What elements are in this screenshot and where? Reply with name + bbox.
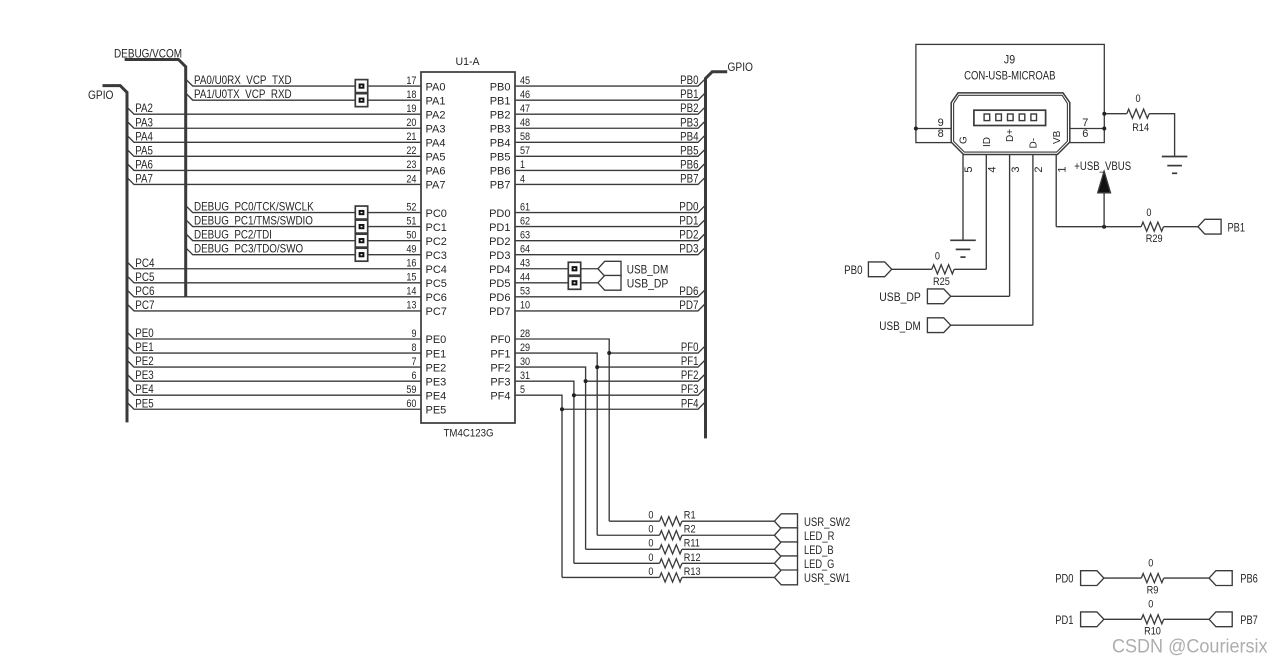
wire+pin PA7 (pin 24) <box>127 177 421 184</box>
svg-text:CSDN @Couriersix: CSDN @Couriersix <box>1112 637 1268 658</box>
svg-text:PC6: PC6 <box>135 284 154 298</box>
resistor R13 (0 ohm) <box>660 573 682 582</box>
svg-text:30: 30 <box>520 356 530 368</box>
wire+pin PF3 (pin 31) with drop <box>515 381 574 563</box>
wire+pin PD6 (pin 53) <box>515 289 706 297</box>
wire+pin PA0 (pin 17) <box>186 79 421 86</box>
wire R2 to port <box>682 534 775 536</box>
svg-text:0: 0 <box>648 510 653 522</box>
J9 pin 4 wire <box>985 155 987 270</box>
svg-text:DEBUG_PC3/TDO/SWO: DEBUG_PC3/TDO/SWO <box>194 242 303 256</box>
svg-text:PE1: PE1 <box>135 340 154 354</box>
wire R11 to port <box>682 548 775 550</box>
power +USB_VBUS arrow <box>1103 193 1105 227</box>
wire+pin PF1 (pin 29) with drop <box>515 353 597 535</box>
svg-text:PA4: PA4 <box>426 138 446 150</box>
svg-text:PB4: PB4 <box>680 129 699 143</box>
svg-text:61: 61 <box>520 201 530 213</box>
svg-text:R25: R25 <box>933 276 950 288</box>
svg-text:57: 57 <box>520 145 530 157</box>
svg-text:D-: D- <box>1029 138 1040 149</box>
svg-text:PA4: PA4 <box>135 129 153 143</box>
svg-text:PD5: PD5 <box>489 278 510 290</box>
J9 tongue contacts <box>984 114 990 121</box>
svg-text:50: 50 <box>406 229 416 241</box>
svg-text:PB1: PB1 <box>490 95 511 107</box>
wire R13 to port <box>682 576 775 578</box>
resistor R29 (0 ohm) <box>1141 222 1163 231</box>
svg-text:PF3: PF3 <box>490 376 510 388</box>
svg-text:PE3: PE3 <box>135 368 154 382</box>
wire R25 to J9 pin4 <box>954 268 986 270</box>
wire+pin PD2 (pin 63) <box>515 233 706 241</box>
svg-text:PE3: PE3 <box>426 376 447 388</box>
svg-text:44: 44 <box>520 272 530 284</box>
wire+pin PF0 (pin 28) with drop <box>515 339 609 521</box>
wire+pin PF2 (pin 30) with drop <box>515 367 586 549</box>
wire+pin PC7 (pin 13) <box>127 304 421 311</box>
svg-text:DEBUG_PC0/TCK/SWCLK: DEBUG_PC0/TCK/SWCLK <box>194 200 314 214</box>
svg-text:PB3: PB3 <box>680 115 699 129</box>
svg-text:PE2: PE2 <box>135 354 154 368</box>
J9 pin 2 wire <box>1032 155 1034 326</box>
svg-text:23: 23 <box>406 159 416 171</box>
svg-text:R1: R1 <box>684 510 696 522</box>
svg-text:60: 60 <box>406 398 416 410</box>
svg-text:PF1: PF1 <box>490 348 510 360</box>
svg-text:PA5: PA5 <box>135 143 153 157</box>
svg-text:22: 22 <box>406 145 416 157</box>
wire+pin PB7 (pin 4) <box>515 177 706 185</box>
svg-text:PF2: PF2 <box>490 362 510 374</box>
wire+pin PA5 (pin 22) <box>127 149 421 156</box>
svg-text:PB0: PB0 <box>844 263 863 277</box>
svg-text:62: 62 <box>520 215 530 227</box>
svg-text:D+: D+ <box>1005 129 1016 142</box>
svg-text:PD2: PD2 <box>679 228 698 242</box>
wire+pin PC3 (pin 49) <box>186 248 421 255</box>
wire PF3 to resistor R12 <box>574 562 660 564</box>
svg-text:PD0: PD0 <box>489 208 510 220</box>
wire+pin PE5 (pin 60) <box>127 402 421 409</box>
svg-text:PE2: PE2 <box>426 362 447 374</box>
wire PD1 to R10 <box>1104 618 1142 620</box>
svg-text:G: G <box>959 136 970 144</box>
J9 pin 7 <box>1070 128 1105 130</box>
wire+pin PB3 (pin 48) <box>515 121 706 129</box>
resistor R10 (0 ohm) <box>1141 615 1163 624</box>
ground (J9 pin 5) <box>962 239 964 241</box>
J9 pin 9 <box>916 128 951 130</box>
svg-text:59: 59 <box>406 384 416 396</box>
resistor R1 (0 ohm) <box>660 517 682 526</box>
svg-text:PF2: PF2 <box>681 368 699 382</box>
svg-text:R11: R11 <box>684 538 700 550</box>
svg-text:43: 43 <box>520 258 530 270</box>
svg-text:CON-USB-MICROAB: CON-USB-MICROAB <box>964 69 1055 83</box>
wire+pin PD5 (pin 44) to port USB_DP <box>515 282 568 284</box>
svg-text:R29: R29 <box>1146 233 1163 245</box>
svg-text:PA6: PA6 <box>426 166 446 178</box>
svg-text:PD7: PD7 <box>679 298 698 312</box>
wire PF2 to resistor R11 <box>586 548 660 550</box>
svg-text:PA3: PA3 <box>135 115 153 129</box>
svg-text:0: 0 <box>648 552 653 564</box>
svg-text:USB_DP: USB_DP <box>627 276 669 290</box>
port PB6 <box>1209 571 1232 586</box>
svg-text:53: 53 <box>520 286 530 298</box>
svg-text:63: 63 <box>520 229 530 241</box>
wire+pin PD7 (pin 10) <box>515 303 706 311</box>
resistor R9 (0 ohm) <box>1141 574 1163 583</box>
resistor R11 (0 ohm) <box>660 545 682 554</box>
svg-text:USB_DP: USB_DP <box>879 290 921 304</box>
svg-text:PC6: PC6 <box>426 292 447 304</box>
svg-text:0: 0 <box>1146 207 1151 219</box>
wire+pin PB5 (pin 57) <box>515 149 706 157</box>
svg-text:PB6: PB6 <box>490 166 511 178</box>
svg-text:PA2: PA2 <box>135 101 153 115</box>
svg-text:PA3: PA3 <box>426 123 446 135</box>
svg-text:PE1: PE1 <box>426 348 447 360</box>
svg-text:16: 16 <box>406 258 416 270</box>
svg-text:3: 3 <box>1010 166 1022 172</box>
port PB7 <box>1209 612 1232 627</box>
svg-text:8: 8 <box>938 128 944 140</box>
bus GPIO right <box>706 72 728 439</box>
svg-text:PD4: PD4 <box>489 264 510 276</box>
svg-text:18: 18 <box>406 89 416 101</box>
port LED_G <box>774 556 797 571</box>
svg-text:0: 0 <box>648 524 653 536</box>
svg-text:PF0: PF0 <box>490 334 510 346</box>
svg-text:PD7: PD7 <box>489 306 510 318</box>
svg-text:5: 5 <box>520 384 525 396</box>
svg-text:PB2: PB2 <box>680 101 699 115</box>
svg-text:USB_DM: USB_DM <box>879 319 921 333</box>
svg-text:LED_G: LED_G <box>804 557 834 571</box>
svg-text:PD6: PD6 <box>489 292 510 304</box>
wire R10 to PB7 <box>1164 618 1209 620</box>
svg-text:PF4: PF4 <box>681 396 699 410</box>
port LED_B <box>774 542 797 557</box>
svg-text:PC1: PC1 <box>426 222 447 234</box>
svg-text:PA7: PA7 <box>426 180 446 192</box>
wire USB_DP to J9 pin3 <box>950 295 1009 297</box>
svg-text:PD6: PD6 <box>679 284 698 298</box>
wire+pin PC6 (pin 14) <box>127 290 421 297</box>
svg-text:R13: R13 <box>684 566 701 578</box>
wire+pin PE3 (pin 6) <box>127 374 421 381</box>
svg-text:PD2: PD2 <box>489 236 510 248</box>
wire+pin PD3 (pin 64) <box>515 247 706 255</box>
svg-text:PA5: PA5 <box>426 152 446 164</box>
svg-text:0: 0 <box>1148 558 1153 570</box>
svg-text:PD3: PD3 <box>489 250 510 262</box>
wire+pin PA1 (pin 18) <box>186 93 421 100</box>
wire+pin PE0 (pin 9) <box>127 332 421 339</box>
svg-text:R9: R9 <box>1147 585 1159 597</box>
svg-text:PE4: PE4 <box>426 390 447 402</box>
wire R1 to port <box>682 520 775 522</box>
wire+pin PC5 (pin 15) <box>127 276 421 283</box>
svg-text:PE4: PE4 <box>135 382 154 396</box>
wire R14 to ground <box>1149 114 1174 157</box>
svg-text:6: 6 <box>1082 128 1088 140</box>
svg-text:DEBUG_PC1/TMS/SWDIO: DEBUG_PC1/TMS/SWDIO <box>194 214 313 228</box>
wire PF0 to resistor R1 <box>609 520 659 522</box>
svg-text:PC7: PC7 <box>135 298 154 312</box>
svg-text:PE0: PE0 <box>426 334 447 346</box>
wire PD0 to R9 <box>1104 577 1142 579</box>
wire+pin PA6 (pin 23) <box>127 163 421 170</box>
svg-text:24: 24 <box>406 173 416 185</box>
wire+pin PE1 (pin 8) <box>127 346 421 353</box>
svg-text:PD3: PD3 <box>679 242 698 256</box>
svg-text:USR_SW1: USR_SW1 <box>804 571 850 585</box>
svg-text:PB5: PB5 <box>490 152 511 164</box>
svg-text:14: 14 <box>406 286 416 298</box>
bus DEBUG/VCOM <box>125 60 186 297</box>
svg-text:PB1: PB1 <box>1228 220 1246 234</box>
wire net PF0 to right bus <box>609 346 705 354</box>
wire+pin PC4 (pin 16) <box>127 262 421 269</box>
svg-text:7: 7 <box>412 356 417 368</box>
svg-text:15: 15 <box>406 272 416 284</box>
svg-text:LED_R: LED_R <box>804 529 835 543</box>
wire+pin PE4 (pin 59) <box>127 388 421 395</box>
wire PF1 to resistor R2 <box>597 534 659 536</box>
wire+pin PB0 (pin 45) <box>515 79 706 87</box>
svg-text:47: 47 <box>520 103 530 115</box>
svg-text:PC0: PC0 <box>426 208 447 220</box>
svg-text:PF4: PF4 <box>490 390 510 402</box>
wire net PF1 to right bus <box>597 360 705 368</box>
resistor R2 (0 ohm) <box>660 531 682 540</box>
svg-text:PA0/U0RX_VCP_TXD: PA0/U0RX_VCP_TXD <box>194 73 292 87</box>
svg-text:PC3: PC3 <box>426 250 447 262</box>
wire+pin PD4 (pin 43) to port USB_DM <box>515 268 568 270</box>
svg-text:PD1: PD1 <box>1055 613 1073 627</box>
svg-text:29: 29 <box>520 342 530 354</box>
svg-text:+USB_VBUS: +USB_VBUS <box>1074 159 1131 173</box>
svg-text:PA1/U0TX_VCP_RXD: PA1/U0TX_VCP_RXD <box>194 87 292 101</box>
svg-text:PE0: PE0 <box>135 326 154 340</box>
svg-text:1: 1 <box>520 159 525 171</box>
svg-text:45: 45 <box>520 75 530 87</box>
svg-text:21: 21 <box>406 131 416 143</box>
wire R9 to PB6 <box>1164 577 1209 579</box>
svg-text:GPIO: GPIO <box>88 88 114 102</box>
wire PF4 to resistor R13 <box>562 576 660 578</box>
ground (R14) <box>1174 156 1176 158</box>
svg-text:PA1: PA1 <box>426 95 446 107</box>
svg-text:46: 46 <box>520 89 530 101</box>
svg-text:0: 0 <box>648 538 653 550</box>
svg-text:PD0: PD0 <box>1055 572 1073 586</box>
wire+pin PB1 (pin 46) <box>515 93 706 101</box>
wire+pin PA2 (pin 19) <box>127 107 421 114</box>
wire+pin PB2 (pin 47) <box>515 107 706 115</box>
svg-text:PB3: PB3 <box>490 123 511 135</box>
svg-text:GPIO: GPIO <box>728 60 754 74</box>
svg-text:19: 19 <box>406 103 416 115</box>
svg-text:PE5: PE5 <box>426 404 447 416</box>
svg-text:64: 64 <box>520 244 530 256</box>
svg-text:PC2: PC2 <box>426 236 447 248</box>
svg-text:VB: VB <box>1052 130 1063 144</box>
svg-text:13: 13 <box>406 300 416 312</box>
J9 tongue <box>974 110 1046 125</box>
resistor R25 (0 ohm) <box>932 265 954 274</box>
svg-text:PB2: PB2 <box>490 109 511 121</box>
svg-text:48: 48 <box>520 117 530 129</box>
wire+pin PE2 (pin 7) <box>127 360 421 367</box>
wire net PF3 to right bus <box>574 388 706 396</box>
wire J9 pin1 to R29 <box>1056 226 1141 228</box>
wire R29 to PB1 <box>1164 226 1199 228</box>
wire+pin PB6 (pin 1) <box>515 163 706 171</box>
wire net PF2 to right bus <box>586 374 706 382</box>
J9 pin 3 wire <box>1009 155 1011 297</box>
IC U1-A TM4C123G chip body <box>421 72 515 423</box>
svg-text:PC5: PC5 <box>426 278 447 290</box>
svg-text:PB6: PB6 <box>1240 572 1258 586</box>
svg-text:PB7: PB7 <box>490 180 511 192</box>
svg-text:10: 10 <box>520 300 530 312</box>
svg-text:31: 31 <box>520 370 530 382</box>
svg-text:USB_DM: USB_DM <box>627 262 669 276</box>
svg-text:PB5: PB5 <box>680 143 699 157</box>
wire+pin PC2 (pin 50) <box>186 234 421 241</box>
svg-text:PA0: PA0 <box>426 81 446 93</box>
svg-text:PF0: PF0 <box>681 340 699 354</box>
wire net PF4 to right bus <box>562 402 706 410</box>
svg-text:28: 28 <box>520 328 530 340</box>
svg-text:R14: R14 <box>1132 122 1149 134</box>
svg-text:PC7: PC7 <box>426 306 447 318</box>
svg-text:PE5: PE5 <box>135 396 154 410</box>
bus GPIO left <box>103 86 128 423</box>
svg-text:52: 52 <box>406 201 416 213</box>
svg-text:0: 0 <box>1135 93 1140 105</box>
svg-text:PC5: PC5 <box>135 270 154 284</box>
port USR_SW1 <box>774 570 797 585</box>
svg-text:PA6: PA6 <box>135 157 153 171</box>
svg-text:8: 8 <box>412 342 417 354</box>
wire+pin PF4 (pin 5) with drop <box>515 395 562 577</box>
svg-text:17: 17 <box>406 75 416 87</box>
svg-text:PD1: PD1 <box>489 222 510 234</box>
svg-text:9: 9 <box>412 328 417 340</box>
wire+pin PA4 (pin 21) <box>127 135 421 142</box>
svg-text:ID: ID <box>982 137 993 147</box>
svg-text:5: 5 <box>963 166 975 172</box>
svg-text:4: 4 <box>520 173 525 185</box>
svg-text:0: 0 <box>935 250 940 262</box>
svg-text:R2: R2 <box>684 524 696 536</box>
svg-text:58: 58 <box>520 131 530 143</box>
svg-text:20: 20 <box>406 117 416 129</box>
svg-text:6: 6 <box>412 370 417 382</box>
svg-text:0: 0 <box>648 566 653 578</box>
wire+pin PD1 (pin 62) <box>515 219 706 227</box>
svg-text:49: 49 <box>406 244 416 256</box>
svg-text:51: 51 <box>406 215 416 227</box>
svg-text:PA2: PA2 <box>426 109 446 121</box>
J9 pin 5 wire <box>962 155 964 241</box>
svg-text:TM4C123G: TM4C123G <box>444 427 494 439</box>
svg-text:PC4: PC4 <box>426 264 447 276</box>
wire+pin PD0 (pin 61) <box>515 205 706 213</box>
svg-text:PB7: PB7 <box>1240 613 1258 627</box>
svg-text:PB0: PB0 <box>680 73 699 87</box>
svg-text:J9: J9 <box>1004 52 1015 66</box>
svg-text:PF1: PF1 <box>681 354 699 368</box>
svg-text:PC4: PC4 <box>135 256 154 270</box>
svg-text:PD0: PD0 <box>679 200 698 214</box>
svg-text:1: 1 <box>1056 166 1068 172</box>
wire J9 shield to R14 <box>1104 113 1127 115</box>
svg-text:U1-A: U1-A <box>456 56 481 68</box>
wire+pin PC0 (pin 52) <box>186 206 421 213</box>
svg-text:DEBUG_PC2/TDI: DEBUG_PC2/TDI <box>194 228 272 242</box>
svg-text:PA7: PA7 <box>135 171 153 185</box>
resistor R12 (0 ohm) <box>660 559 682 568</box>
port LED_R <box>774 528 797 543</box>
svg-text:PB6: PB6 <box>680 157 699 171</box>
svg-text:PB0: PB0 <box>490 81 511 93</box>
wire R12 to port <box>682 562 775 564</box>
port PB1 <box>1198 219 1221 234</box>
wire PB0 to R25 <box>891 268 932 270</box>
svg-text:0: 0 <box>1148 599 1153 611</box>
svg-text:R12: R12 <box>684 552 701 564</box>
svg-text:PB7: PB7 <box>680 171 699 185</box>
resistor R14 (0 ohm) <box>1127 109 1149 118</box>
J9 micro-USB shell <box>951 93 1070 155</box>
svg-text:LED_B: LED_B <box>804 543 834 557</box>
svg-text:PB4: PB4 <box>490 138 511 150</box>
svg-text:2: 2 <box>1033 166 1045 172</box>
wire+pin PC1 (pin 51) <box>186 220 421 227</box>
wire+pin PB4 (pin 58) <box>515 135 706 143</box>
wire USB_DM to J9 pin2 <box>950 324 1033 326</box>
svg-text:4: 4 <box>987 166 999 172</box>
wire+pin PA3 (pin 20) <box>127 121 421 128</box>
svg-text:PD1: PD1 <box>679 214 698 228</box>
J9 pin 1 wire <box>1055 155 1057 227</box>
svg-text:PF3: PF3 <box>681 382 699 396</box>
port USR_SW2 <box>774 514 797 529</box>
connector J9 outline box <box>916 44 1104 142</box>
svg-text:PB1: PB1 <box>680 87 699 101</box>
svg-text:USR_SW2: USR_SW2 <box>804 515 850 529</box>
